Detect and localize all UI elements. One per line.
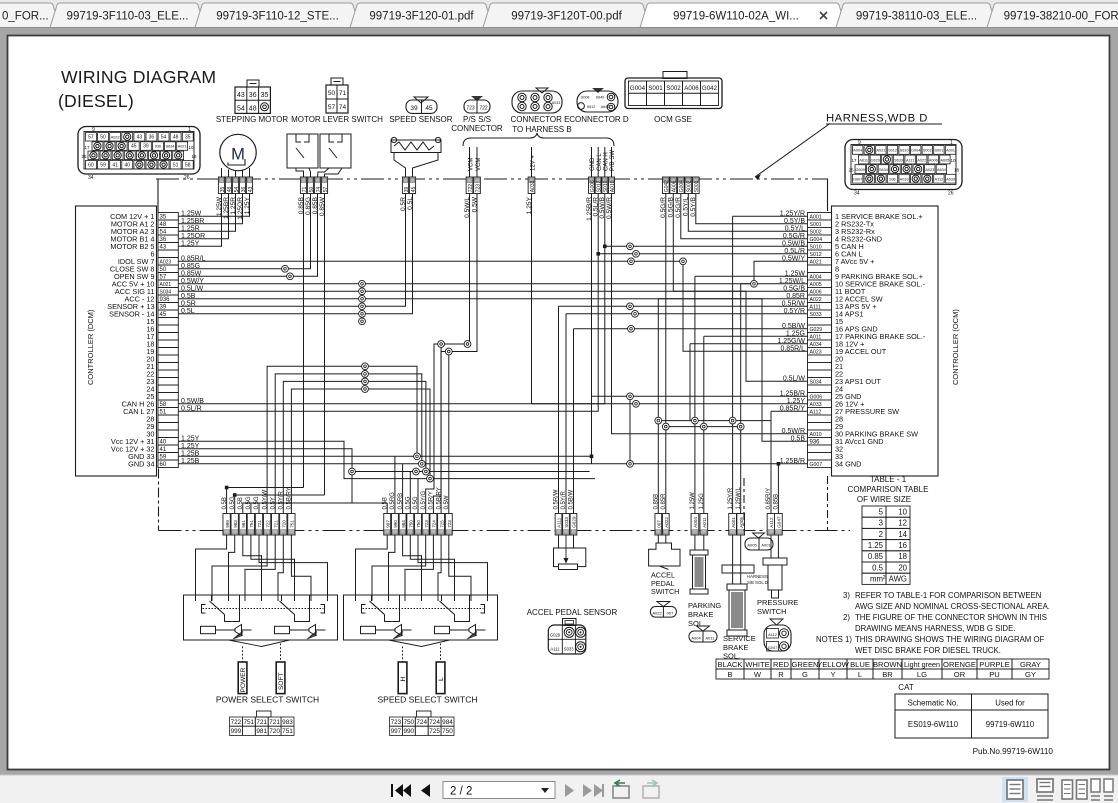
svg-text:SWITCH: SWITCH (651, 587, 679, 596)
wire ACC - to AVcc1 GND (178, 299, 807, 442)
svg-text:CAN H: CAN H (604, 152, 610, 171)
svg-text:A112: A112 (768, 632, 777, 637)
page number combobox (443, 782, 555, 799)
power select switch contacts (202, 596, 325, 622)
svg-text:S640: S640 (596, 96, 604, 100)
gnd tap speed select 2 (402, 464, 404, 514)
svg-text:723: 723 (466, 106, 475, 112)
motor lever switch connector (326, 78, 348, 113)
svg-text:0.5Y: 0.5Y (270, 497, 276, 509)
svg-text:14: 14 (898, 530, 907, 539)
svg-text:PURPLE: PURPLE (979, 660, 1009, 669)
wire SENSOR - to speed sensor (178, 194, 412, 314)
svg-text:5: 5 (879, 507, 884, 516)
svg-text:G004: G004 (679, 180, 685, 192)
svg-text:27 PRESSURE SW: 27 PRESSURE SW (835, 407, 899, 416)
svg-text:2: 2 (879, 530, 883, 539)
accel pedal switch symbol (649, 535, 680, 570)
svg-text:A006: A006 (684, 85, 699, 92)
pin strip speed sensor (402, 177, 417, 194)
svg-text:722: 722 (468, 184, 474, 193)
svg-text:S634: S634 (166, 145, 175, 149)
svg-text:S033: S033 (564, 647, 574, 652)
pressure switch symbol (763, 535, 787, 598)
svg-text:751: 751 (243, 719, 254, 726)
svg-text:A005: A005 (739, 517, 744, 528)
wire ACC 5V+ to AVcc 5V+ (178, 261, 807, 284)
svg-text:S/B SOL D: S/B SOL D (747, 580, 768, 585)
controller OCM box (832, 206, 939, 476)
svg-text:25: 25 (81, 154, 87, 159)
svg-text:GND 34: GND 34 (128, 459, 154, 468)
svg-text:G004: G004 (911, 149, 920, 153)
svg-text:0.5B: 0.5B (238, 497, 244, 509)
svg-text:CONNECTOR: CONNECTOR (451, 124, 503, 133)
parking brake sol connector (689, 626, 717, 642)
svg-text:A006: A006 (672, 180, 678, 192)
wire OCM GSE G004 to RS232-GND (681, 194, 808, 239)
svg-text:983: 983 (233, 520, 238, 528)
wire parking brake sol + to OCM pin9 (695, 275, 808, 277)
next view button (disabled) (643, 780, 659, 798)
svg-text:0.5B/RY: 0.5B/RY (436, 487, 442, 509)
power select switch buzzers (216, 625, 326, 640)
svg-text:0.85B: 0.85B (654, 494, 660, 510)
wire service brake sol - to OCM pin10 (741, 283, 808, 285)
svg-text:2: 2 (883, 575, 886, 581)
power select switch resistors (201, 626, 216, 633)
svg-text:G007: G007 (810, 462, 823, 468)
wire CAN H left (178, 194, 605, 404)
svg-text:45: 45 (425, 105, 433, 112)
svg-text:TO HARNESS B: TO HARNESS B (512, 125, 571, 134)
svg-text:724: 724 (416, 719, 427, 726)
svg-text:51: 51 (173, 162, 179, 168)
wire lever pin 74 down (324, 194, 326, 496)
svg-text:L: L (438, 677, 445, 681)
previous page button (421, 784, 430, 797)
svg-text:mm: mm (870, 575, 883, 584)
svg-text:1.25: 1.25 (868, 541, 884, 550)
svg-text:Light green: Light green (904, 660, 940, 669)
svg-text:S633: S633 (894, 158, 903, 162)
wire P/S 722 down (426, 194, 470, 514)
wire 12V+ OCM pin18 (690, 343, 808, 345)
speed select switch resistors (361, 626, 376, 633)
svg-text:0.5G: 0.5G (246, 496, 252, 509)
svg-text:16: 16 (898, 541, 907, 550)
svg-text:3: 3 (879, 519, 883, 528)
svg-text:G047: G047 (768, 645, 778, 650)
power select switch selector leaders (229, 640, 290, 647)
wire ACC SIG to APS1 OUT (178, 291, 807, 381)
wire SENSOR + to speed sensor (178, 194, 405, 307)
pin strip parking brake sol (690, 492, 708, 535)
harness boundary left lower edge (158, 469, 160, 531)
svg-text:0.5Y/R: 0.5Y/R (279, 490, 285, 509)
wire CAN L right (598, 253, 807, 255)
connector D symbol (577, 88, 618, 112)
wire lever 74 to power select pin2 (235, 495, 325, 514)
svg-text:AWG SIZE AND NOMINAL CROSS-SEC: AWG SIZE AND NOMINAL CROSS-SECTIONAL ARE… (855, 602, 1050, 611)
motor lever switch device (287, 134, 351, 168)
speed select switch contacts (362, 596, 485, 622)
wire APS GND to accel sensor (574, 328, 808, 330)
svg-text:ORENGE: ORENGE (943, 660, 976, 669)
svg-text:COMPARISON TABLE: COMPARISON TABLE (848, 485, 929, 494)
svg-text:PU: PU (989, 670, 1000, 679)
wire OCM GSE A006 to BOOT (673, 194, 807, 292)
svg-text:A022: A022 (111, 135, 120, 139)
svg-text:G008: G008 (581, 96, 590, 100)
svg-text:0.5G: 0.5G (254, 496, 260, 509)
svg-text:CAN L: CAN L (597, 153, 603, 171)
svg-text:WET DISC BRAKE FOR DIESEL TRUC: WET DISC BRAKE FOR DIESEL TRUCK. (855, 646, 1001, 655)
speed select switch pin table (417, 711, 432, 717)
svg-text:H: H (400, 677, 407, 682)
svg-text:VCM: VCM (468, 158, 474, 171)
svg-text:WIRING DIAGRAM: WIRING DIAGRAM (61, 67, 216, 87)
parking brake solenoid symbol (690, 535, 708, 594)
svg-text:722: 722 (231, 719, 242, 726)
svg-text:2 / 2: 2 / 2 (450, 786, 472, 798)
speed sensor connector (406, 97, 437, 113)
svg-text:0.5G: 0.5G (406, 496, 412, 509)
svg-text:ES019-6W110: ES019-6W110 (908, 720, 959, 729)
vcc tap speed select 4 (417, 479, 419, 514)
svg-text:A634: A634 (937, 168, 946, 172)
browser tab 99719-3F110-03_ELE... (50, 3, 205, 28)
svg-text:981: 981 (241, 520, 246, 528)
svg-text:39: 39 (410, 105, 418, 112)
svg-text:0.5RB: 0.5RB (398, 493, 404, 510)
speed select switch buzzers (376, 625, 486, 640)
wire pressure switch to OCM pin27 (771, 410, 808, 412)
svg-text:984: 984 (442, 719, 453, 726)
wire 12V+ A033 to OCM pin26 (532, 194, 808, 404)
controller DCM box (76, 206, 157, 476)
svg-text:0.5R/W: 0.5R/W (554, 489, 560, 509)
svg-text:OCM GSE: OCM GSE (654, 115, 692, 124)
wire CAN L left (178, 194, 598, 412)
svg-text:S012: S012 (888, 149, 897, 153)
tab bar bottom line (0, 27, 1118, 29)
svg-text:SWITCH: SWITCH (757, 607, 787, 616)
svg-text:34: 34 (88, 175, 94, 181)
svg-text:751: 751 (249, 520, 254, 528)
svg-text:59: 59 (100, 162, 106, 168)
svg-text:L: L (858, 670, 862, 679)
svg-text:A004: A004 (853, 149, 862, 153)
junction splice markers (282, 243, 758, 482)
svg-text:S610: S610 (900, 149, 909, 153)
svg-text:48: 48 (173, 134, 179, 140)
feed line power pins 3-5 and speed pin1 (243, 503, 387, 514)
svg-text:1.25W: 1.25W (690, 492, 696, 510)
svg-text:26: 26 (184, 175, 190, 181)
svg-text:721: 721 (256, 719, 267, 726)
svg-text:7 AVcc 5V +: 7 AVcc 5V + (835, 257, 874, 266)
gnd tap speed select 1 (394, 456, 396, 513)
svg-text:A111: A111 (550, 647, 560, 652)
svg-text:45: 45 (411, 187, 417, 193)
svg-text:10: 10 (950, 158, 956, 163)
svg-text:G: G (802, 670, 808, 679)
svg-text:S002: S002 (923, 149, 932, 153)
harness boundary bottom bus line (159, 530, 851, 532)
svg-text:18: 18 (898, 552, 907, 561)
svg-text:A006: A006 (929, 158, 938, 162)
harness boundary right corner (826, 179, 828, 211)
svg-text:57: 57 (88, 134, 94, 140)
svg-text:M: M (231, 146, 245, 164)
svg-text:751: 751 (282, 728, 293, 735)
svg-text:G042: G042 (702, 85, 718, 92)
pin strip 12V+ (528, 177, 536, 194)
svg-text:A022: A022 (652, 610, 662, 615)
svg-text:A010: A010 (900, 178, 909, 182)
svg-text:S001: S001 (934, 149, 943, 153)
pin strip OCM GSE (662, 177, 700, 194)
svg-text:Used for: Used for (995, 699, 1025, 708)
svg-text:S033: S033 (564, 517, 569, 528)
svg-text:99719-38210-00_FOR...: 99719-38210-00_FOR... (1004, 11, 1118, 23)
svg-text:PRESSURE: PRESSURE (757, 598, 798, 607)
svg-text:34 GND: 34 GND (835, 459, 861, 468)
pin strip power select switch (222, 487, 295, 535)
svg-text:10: 10 (188, 145, 194, 150)
svg-text:99719-3F110-12_STE...: 99719-3F110-12_STE... (216, 11, 339, 23)
svg-text:THIS DRAWING SHOWS THE WIRING: THIS DRAWING SHOWS THE WIRING DIAGRAM OF (855, 635, 1045, 644)
svg-text:0.5G: 0.5G (230, 496, 236, 509)
svg-text:750: 750 (403, 719, 414, 726)
svg-text:0.85: 0.85 (868, 552, 884, 561)
svg-text:THE FIGURE OF THE CONNECTOR SH: THE FIGURE OF THE CONNECTOR SHOWN IN THI… (855, 613, 1047, 622)
accel pedal sensor potentiometer (554, 535, 586, 570)
svg-text:99719-38110-03_ELE...: 99719-38110-03_ELE... (856, 11, 977, 23)
svg-text:0.5R/Y: 0.5R/Y (429, 491, 435, 509)
svg-text:P/B SW: P/B SW (610, 150, 616, 171)
svg-text:724: 724 (432, 520, 437, 528)
schematic number table (895, 694, 1048, 738)
svg-text:BR: BR (882, 670, 893, 679)
svg-text:GRAY: GRAY (1020, 660, 1041, 669)
svg-text:58: 58 (185, 162, 191, 168)
wire APS 5V+ to accel sensor (559, 305, 808, 307)
svg-text:1.25G: 1.25G (699, 493, 705, 510)
pin strip accel pedal switch (654, 493, 670, 535)
svg-text:2): 2) (843, 613, 850, 622)
svg-text:35: 35 (261, 92, 269, 99)
browser tab 99719-3F120T-00.pdf (483, 3, 650, 28)
svg-text:990: 990 (393, 520, 398, 528)
svg-text:723: 723 (391, 719, 402, 726)
power select switch box (184, 595, 338, 640)
svg-text:A111: A111 (906, 158, 914, 162)
svg-text:750: 750 (442, 728, 453, 735)
svg-text:ACCEL PEDAL SENSOR: ACCEL PEDAL SENSOR (527, 608, 618, 617)
svg-text:MOTOR B2 5: MOTOR B2 5 (110, 242, 154, 251)
svg-text:G029: G029 (572, 516, 577, 528)
stepping motor M device (220, 134, 256, 170)
svg-text:Schematic No.: Schematic No. (908, 699, 959, 708)
svg-text:TABLE - 1: TABLE - 1 (870, 475, 907, 484)
wire to speed select pin8 (440, 344, 442, 514)
svg-text:0.5W: 0.5W (444, 495, 450, 509)
svg-text:SPEED SELECT SWITCH: SPEED SELECT SWITCH (378, 695, 478, 705)
svg-text:997: 997 (385, 520, 390, 528)
svg-text:CONTROLLER (DCM): CONTROLLER (DCM) (86, 309, 95, 385)
page layout buttons (1002, 777, 1113, 802)
speed select switch box (344, 595, 498, 640)
svg-text:A022: A022 (917, 158, 926, 162)
svg-text:A001: A001 (761, 543, 771, 548)
svg-text:BRAKE: BRAKE (688, 610, 713, 619)
svg-text:45: 45 (131, 144, 137, 150)
next page button (disabled) (565, 784, 574, 797)
svg-text:A112: A112 (769, 517, 774, 528)
svg-text:S001: S001 (648, 85, 663, 92)
wires stepping motor to DCM pins 1-5 (178, 194, 249, 247)
table 1 wire size comparison (862, 506, 910, 584)
accel pedal sensor connector (548, 619, 586, 655)
wire OCM GSE S002 to RS232-Rx (688, 194, 807, 232)
svg-text:721: 721 (269, 719, 280, 726)
svg-text:1.25W/L: 1.25W/L (736, 486, 742, 509)
wire GND pin34 bus (178, 463, 807, 465)
svg-text:BROWN: BROWN (873, 660, 902, 669)
svg-text:724: 724 (429, 719, 440, 726)
controller DCM pin rows (107, 210, 205, 468)
svg-text:A033: A033 (530, 180, 536, 192)
svg-text:18: 18 (191, 154, 197, 159)
svg-text:17: 17 (84, 145, 90, 150)
svg-text:R: R (778, 670, 784, 679)
svg-text:S001: S001 (694, 180, 700, 192)
browser tab 99719-38110-03_ELE... (836, 3, 997, 28)
svg-text:S634: S634 (879, 168, 888, 172)
svg-text:S612: S612 (587, 105, 595, 109)
svg-text:721: 721 (273, 520, 278, 528)
svg-text:AWG: AWG (889, 575, 907, 584)
svg-text:720: 720 (282, 520, 287, 528)
svg-text:A001: A001 (731, 517, 736, 528)
bottom toolbar background (0, 775, 1118, 803)
svg-text:0.5B: 0.5B (382, 497, 388, 509)
svg-text:A011: A011 (705, 635, 715, 640)
svg-text:39: 39 (143, 144, 149, 150)
harness boundary dash-dot vertical mid (743, 478, 745, 531)
svg-text:W: W (754, 670, 762, 679)
svg-text:A023: A023 (925, 168, 934, 172)
svg-text:Y: Y (830, 670, 835, 679)
svg-text:0.5Y/R: 0.5Y/R (561, 490, 567, 509)
svg-text:0.85R: 0.85R (661, 493, 667, 510)
power select switch position labels (238, 662, 247, 694)
svg-text:990: 990 (403, 728, 414, 735)
wire stubs below brace to pin strips (470, 147, 612, 177)
svg-text:SPEED SENSOR: SPEED SENSOR (389, 115, 452, 124)
svg-text:99719-6W110: 99719-6W110 (986, 720, 1035, 729)
svg-text:36: 36 (249, 92, 257, 99)
svg-text:57: 57 (328, 104, 336, 111)
svg-text:WHITE: WHITE (745, 660, 769, 669)
svg-text:HARNESS,WDB D: HARNESS,WDB D (826, 113, 928, 125)
pressure switch connector (764, 619, 791, 651)
svg-text:936: 936 (155, 145, 161, 149)
svg-text:0.5B/W: 0.5B/W (569, 489, 575, 509)
svg-text:DRAWING MEANS HARNESS, WDB G S: DRAWING MEANS HARNESS, WDB G SIDE. (855, 624, 1015, 633)
svg-text:99719-3F110-03_ELE...: 99719-3F110-03_ELE... (67, 11, 189, 23)
svg-text:SERVICE: SERVICE (723, 634, 756, 643)
accel pedal switch connector (650, 602, 676, 618)
svg-text:OR: OR (954, 670, 966, 679)
svg-text:48: 48 (249, 106, 257, 113)
svg-text:007: 007 (657, 520, 662, 528)
stepping motor connector (235, 80, 270, 113)
wire P/S 723 down (433, 194, 477, 514)
svg-text:723: 723 (424, 520, 429, 528)
pin strip connector E (589, 177, 616, 194)
svg-text:999: 999 (231, 728, 242, 735)
svg-text:36: 36 (149, 134, 155, 140)
wire pressure switch ground (777, 464, 779, 514)
connector grid WDB G left (pins 1-34) (78, 127, 200, 182)
svg-text:40: 40 (124, 162, 130, 168)
wire speed select pin1 feed (386, 503, 388, 514)
svg-text:A005: A005 (940, 158, 949, 162)
svg-text:(DIESEL): (DIESEL) (58, 91, 134, 111)
svg-text:P/S S/S: P/S S/S (463, 115, 491, 124)
svg-text:1.25Y/R: 1.25Y/R (728, 487, 734, 509)
svg-text:CAT: CAT (898, 683, 914, 692)
svg-text:G042: G042 (664, 180, 670, 192)
svg-text:A111: A111 (557, 517, 562, 527)
svg-text:0.5G: 0.5G (413, 496, 419, 509)
svg-text:997: 997 (391, 728, 402, 735)
svg-text:A011: A011 (702, 517, 707, 528)
svg-text:S002: S002 (687, 180, 693, 192)
wire APS1 to accel sensor (566, 313, 808, 315)
tab close button (820, 12, 827, 19)
svg-text:751: 751 (290, 520, 295, 528)
svg-text:43: 43 (237, 92, 245, 99)
svg-text:POWER SELECT SWITCH: POWER SELECT SWITCH (216, 695, 319, 705)
svg-text:99719-3F120T-00.pdf: 99719-3F120T-00.pdf (511, 11, 622, 23)
pin strip accel pedal sensor (554, 489, 577, 535)
wire service brake sol + to OCM pin1 (733, 215, 808, 217)
svg-text:STEPPING MOTOR: STEPPING MOTOR (216, 115, 289, 124)
svg-text:12V +: 12V + (530, 155, 536, 171)
svg-text:725: 725 (439, 520, 444, 528)
svg-text:HARNESS,: HARNESS, (747, 574, 769, 579)
wires lever to pins (296, 168, 304, 177)
svg-text:CONNECTOR E: CONNECTOR E (511, 115, 570, 124)
harness boundary top bus line (156, 178, 826, 180)
svg-text:99719-3F120-01.pdf: 99719-3F120-01.pdf (369, 11, 474, 23)
service brake solenoid crossbar (722, 535, 754, 584)
svg-text:12: 12 (898, 519, 907, 528)
wire accel switch to OCM pin12 (658, 298, 807, 300)
wire OCM GSE G042 down to accel switch (665, 194, 667, 514)
wire Vcc 12V+ pin31 across (178, 441, 595, 478)
svg-text:CONNECTOR D: CONNECTOR D (569, 115, 629, 124)
svg-text:MOTOR LEVER SWITCH: MOTOR LEVER SWITCH (291, 115, 383, 124)
P/S S/S connector (464, 96, 490, 113)
wire parking brake sol - to OCM pin17 (704, 335, 808, 337)
svg-text:POWER: POWER (240, 667, 247, 692)
svg-text:17: 17 (851, 158, 857, 163)
